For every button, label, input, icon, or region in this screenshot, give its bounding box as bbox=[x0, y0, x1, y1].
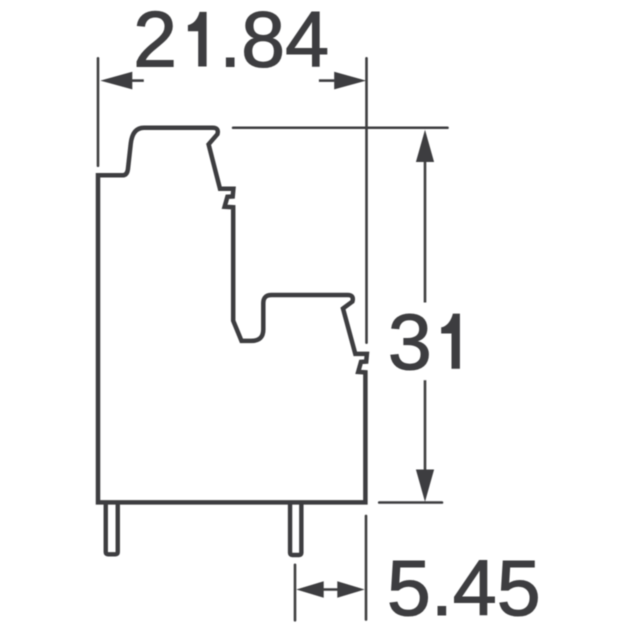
dimension label 21.84 bbox=[133, 0, 329, 84]
svg-text:.84: .84 bbox=[219, 0, 329, 84]
svg-text:2: 2 bbox=[133, 0, 177, 84]
dimension 31 top arrow bbox=[416, 130, 434, 303]
left pin bbox=[106, 502, 118, 554]
svg-text:3: 3 bbox=[388, 297, 432, 386]
dimension 31 top extension line bbox=[233, 126, 447, 129]
right pin bbox=[290, 502, 301, 555]
dimension 31 bottom extension line bbox=[379, 501, 442, 504]
dimension label 31 bbox=[388, 297, 460, 386]
dimension 21.84 right extension line bbox=[365, 58, 368, 342]
dimension 21.84 right arrow bbox=[319, 72, 366, 90]
dimension 21.84 left extension line bbox=[97, 58, 100, 165]
terminal block body outline bbox=[98, 128, 367, 503]
svg-text:5.45: 5.45 bbox=[387, 543, 541, 632]
dimension 31 bottom arrow bbox=[416, 380, 434, 502]
dimension 5.45 right extension line bbox=[365, 516, 368, 620]
dimension 5.45 left extension line bbox=[294, 565, 297, 621]
dimension 21.84 left arrow bbox=[100, 72, 144, 90]
dimension 5.45 double arrow bbox=[296, 581, 364, 597]
